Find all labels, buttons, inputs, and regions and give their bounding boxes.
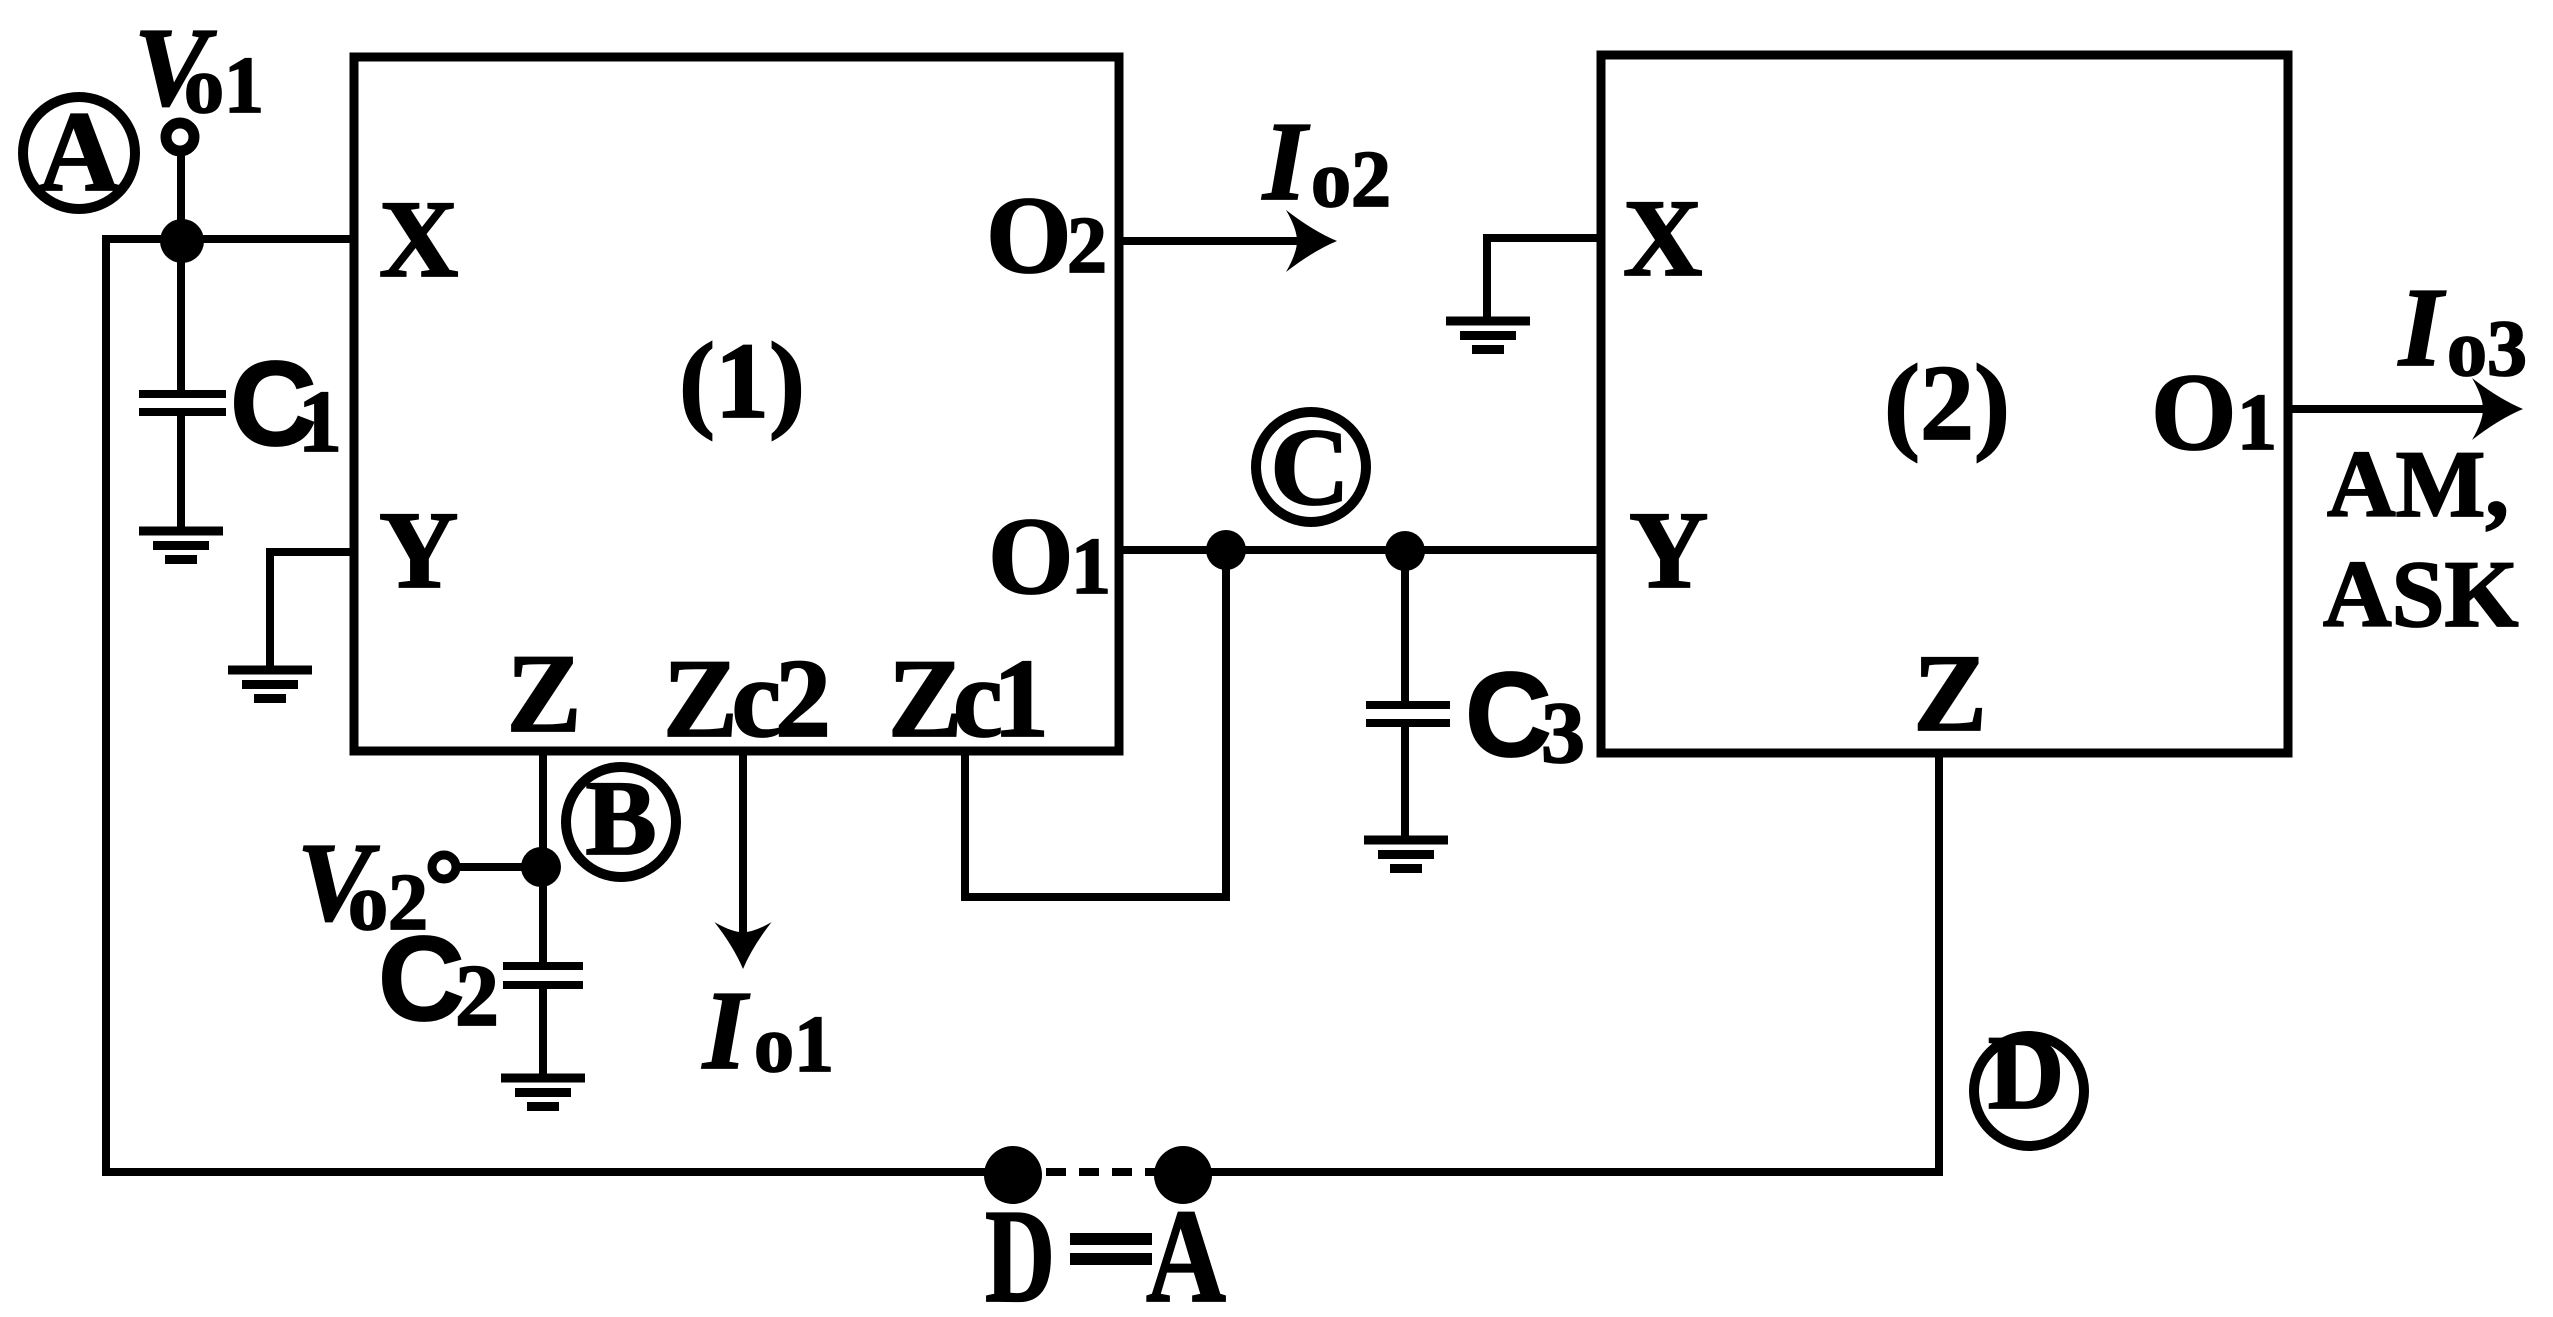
svg-text:(2): (2) xyxy=(1884,344,2010,463)
svg-text:I: I xyxy=(701,969,750,1093)
svg-text:X: X xyxy=(1623,177,1702,299)
svg-text:ASK: ASK xyxy=(2323,541,2518,647)
svg-text:o2: o2 xyxy=(1311,136,1391,224)
svg-text:C: C xyxy=(378,912,465,1046)
svg-text:Zc1: Zc1 xyxy=(888,637,1049,761)
svg-text:I: I xyxy=(1261,100,1310,224)
svg-text:o1: o1 xyxy=(754,1001,834,1089)
svg-text:o1: o1 xyxy=(184,42,264,130)
svg-text:AM,: AM, xyxy=(2327,431,2509,537)
svg-text:(1): (1) xyxy=(679,322,805,441)
svg-text:o3: o3 xyxy=(2447,305,2527,393)
svg-text:D: D xyxy=(985,1182,1055,1317)
svg-text:I: I xyxy=(2397,266,2446,390)
svg-text:D: D xyxy=(1988,1014,2065,1131)
svg-text:O1: O1 xyxy=(2151,351,2277,473)
svg-text:A: A xyxy=(38,88,120,215)
svg-text:Zc2: Zc2 xyxy=(663,637,831,761)
svg-text:2: 2 xyxy=(455,948,499,1045)
svg-text:C: C xyxy=(1465,648,1552,782)
svg-text:O2: O2 xyxy=(986,174,1107,296)
svg-text:X: X xyxy=(379,178,458,300)
svg-text:O1: O1 xyxy=(988,495,1111,617)
svg-text:Z: Z xyxy=(507,632,582,756)
svg-text:3: 3 xyxy=(1541,685,1585,782)
svg-text:Y: Y xyxy=(379,489,458,611)
svg-text:C: C xyxy=(1270,406,1349,528)
svg-text:B: B xyxy=(585,760,656,878)
svg-text:Y: Y xyxy=(1629,489,1708,611)
svg-text:A: A xyxy=(1146,1182,1226,1317)
svg-text:1: 1 xyxy=(298,374,342,471)
svg-text:Z: Z xyxy=(1913,632,1986,754)
